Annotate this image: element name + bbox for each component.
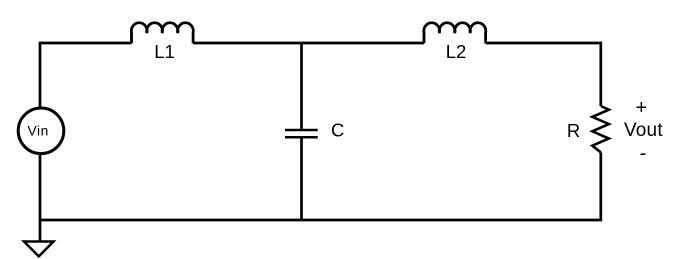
svg-text:Vin: Vin	[28, 123, 49, 138]
svg-text:L1: L1	[154, 41, 175, 62]
svg-text:C: C	[331, 120, 344, 141]
svg-text:Vout: Vout	[624, 120, 663, 141]
svg-text:L2: L2	[446, 41, 467, 62]
svg-text:R: R	[567, 120, 580, 141]
svg-text:-: -	[640, 143, 647, 165]
svg-text:+: +	[635, 97, 647, 119]
